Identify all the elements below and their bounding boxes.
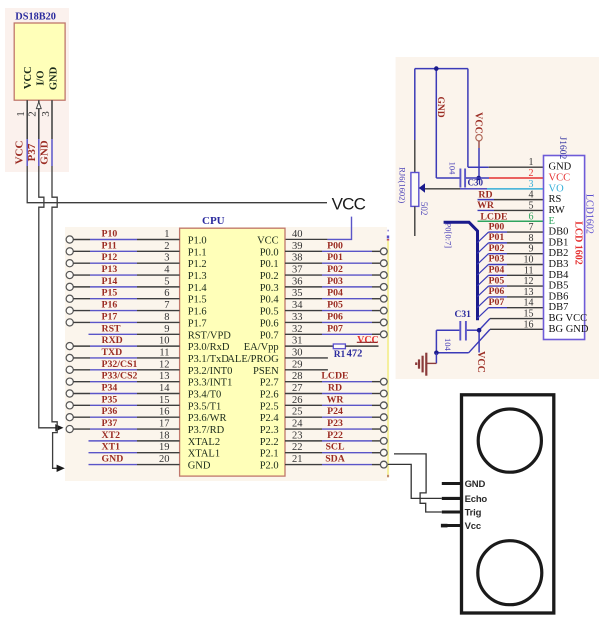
svg-text:21: 21 — [292, 454, 303, 465]
svg-text:XT1: XT1 — [102, 442, 121, 453]
svg-text:RS: RS — [549, 194, 562, 205]
svg-text:DB7: DB7 — [549, 302, 569, 313]
svg-text:3: 3 — [164, 253, 169, 264]
svg-text:P2.7: P2.7 — [260, 378, 279, 389]
svg-text:P13: P13 — [102, 264, 118, 275]
svg-text:18: 18 — [159, 430, 170, 441]
svg-text:GND: GND — [102, 454, 124, 465]
svg-text:Echo: Echo — [465, 494, 488, 505]
svg-text:LCD1602: LCD1602 — [584, 194, 595, 234]
svg-text:4: 4 — [529, 190, 534, 201]
svg-text:P3.0/RxD: P3.0/RxD — [188, 342, 230, 353]
svg-text:P1.2: P1.2 — [188, 259, 207, 270]
svg-text:VCC: VCC — [257, 236, 279, 247]
svg-text:RD: RD — [478, 189, 492, 200]
svg-text:VO: VO — [549, 183, 565, 194]
svg-text:P06: P06 — [327, 311, 343, 322]
svg-text:1: 1 — [529, 157, 534, 168]
svg-text:WR: WR — [327, 394, 345, 405]
svg-text:GND: GND — [435, 96, 445, 117]
svg-text:VCC: VCC — [357, 335, 379, 346]
svg-text:P01: P01 — [327, 252, 343, 263]
svg-text:GND: GND — [465, 479, 486, 490]
svg-text:Trig: Trig — [465, 507, 482, 518]
svg-text:9: 9 — [164, 324, 169, 335]
svg-text:P03: P03 — [327, 276, 343, 287]
svg-text:P0.1: P0.1 — [260, 259, 279, 270]
svg-text:RST/VPD: RST/VPD — [188, 330, 232, 341]
svg-text:P24: P24 — [327, 406, 343, 417]
svg-text:J1602: J1602 — [557, 137, 567, 160]
svg-text:36: 36 — [292, 276, 303, 287]
svg-text:P2.0: P2.0 — [260, 461, 279, 472]
svg-text:RJ6(1602): RJ6(1602) — [398, 167, 408, 203]
svg-text:RXD: RXD — [102, 335, 123, 346]
svg-text:35: 35 — [292, 288, 303, 299]
svg-text:BG VCC: BG VCC — [549, 313, 588, 324]
svg-text:P0.5: P0.5 — [260, 307, 279, 318]
svg-text:6: 6 — [164, 288, 169, 299]
svg-text:4: 4 — [164, 265, 170, 276]
svg-text:104: 104 — [443, 338, 453, 352]
svg-text:R1: R1 — [334, 350, 346, 360]
svg-text:1: 1 — [164, 229, 169, 240]
svg-text:P1.7: P1.7 — [188, 318, 207, 329]
svg-text:P35: P35 — [102, 394, 118, 405]
svg-text:P22: P22 — [327, 430, 343, 441]
svg-text:P2.1: P2.1 — [260, 449, 279, 460]
svg-text:17: 17 — [159, 419, 170, 430]
svg-text:P04: P04 — [489, 265, 505, 276]
svg-text:SDA: SDA — [325, 454, 345, 465]
svg-text:P2.5: P2.5 — [260, 401, 279, 412]
svg-text:32: 32 — [292, 324, 303, 335]
svg-text:3: 3 — [40, 111, 52, 117]
svg-text:TXD: TXD — [102, 347, 123, 358]
svg-text:P0.3: P0.3 — [260, 283, 279, 294]
svg-text:LCD 1602: LCD 1602 — [572, 221, 583, 265]
svg-text:P04: P04 — [327, 288, 343, 299]
svg-text:P3.3/INT1: P3.3/INT1 — [188, 378, 233, 389]
svg-text:P2.3: P2.3 — [260, 425, 279, 436]
svg-text:BG GND: BG GND — [549, 324, 589, 335]
svg-text:I/O: I/O — [36, 70, 47, 85]
svg-text:16: 16 — [159, 407, 170, 418]
svg-text:12: 12 — [159, 359, 170, 370]
svg-text:P02: P02 — [489, 243, 505, 254]
svg-text:Vcc: Vcc — [465, 521, 481, 532]
svg-text:29: 29 — [292, 359, 303, 370]
svg-text:13: 13 — [524, 287, 534, 298]
svg-text:P37: P37 — [102, 418, 118, 429]
svg-text:P00: P00 — [489, 221, 505, 232]
svg-text:13: 13 — [159, 371, 170, 382]
svg-text:P05: P05 — [489, 275, 505, 286]
svg-text:P17: P17 — [102, 311, 118, 322]
svg-text:P1.1: P1.1 — [188, 247, 207, 258]
svg-text:DB1: DB1 — [549, 237, 569, 248]
svg-text:PSEN: PSEN — [253, 366, 279, 377]
svg-text:P02: P02 — [327, 264, 343, 275]
svg-text:P37: P37 — [26, 143, 38, 161]
svg-text:EA/Vpp: EA/Vpp — [244, 342, 279, 353]
svg-text:P1.0: P1.0 — [188, 236, 207, 247]
svg-text:40: 40 — [292, 229, 303, 240]
svg-text:WR: WR — [477, 200, 495, 211]
svg-text:104: 104 — [448, 162, 458, 176]
svg-text:9: 9 — [529, 244, 534, 255]
svg-text:12: 12 — [524, 276, 534, 287]
svg-text:VCC: VCC — [475, 351, 486, 373]
svg-text:8: 8 — [529, 233, 534, 244]
svg-text:34: 34 — [292, 300, 303, 311]
svg-text:GND: GND — [188, 461, 211, 472]
svg-text:P2.4: P2.4 — [260, 413, 280, 424]
svg-text:LCDE: LCDE — [321, 371, 349, 382]
svg-text:7: 7 — [164, 300, 169, 311]
svg-text:P3.6/WR: P3.6/WR — [188, 413, 227, 424]
svg-text:P14: P14 — [102, 276, 118, 287]
svg-text:P07: P07 — [327, 323, 343, 334]
svg-text:22: 22 — [292, 442, 303, 453]
svg-text:7: 7 — [529, 222, 534, 233]
svg-text:39: 39 — [292, 241, 303, 252]
svg-text:P3.5/T1: P3.5/T1 — [188, 401, 222, 412]
svg-text:GND: GND — [48, 66, 59, 90]
svg-text:11: 11 — [524, 265, 534, 276]
svg-text:DB0: DB0 — [549, 227, 569, 238]
svg-text:2: 2 — [164, 241, 169, 252]
svg-text:VCC: VCC — [332, 194, 366, 213]
svg-text:P2.2: P2.2 — [260, 437, 279, 448]
svg-text:2: 2 — [529, 168, 534, 179]
svg-text:P11: P11 — [102, 240, 117, 251]
svg-text:P10: P10 — [102, 229, 118, 240]
svg-text:8: 8 — [164, 312, 169, 323]
svg-text:P1.4: P1.4 — [188, 283, 208, 294]
svg-text:P0.4: P0.4 — [260, 295, 280, 306]
svg-text:19: 19 — [159, 442, 170, 453]
svg-text:P01: P01 — [489, 232, 505, 243]
svg-text:P1.6: P1.6 — [188, 307, 207, 318]
svg-text:14: 14 — [524, 298, 534, 309]
svg-text:1: 1 — [15, 111, 27, 117]
svg-text:30: 30 — [292, 347, 303, 358]
svg-text:23: 23 — [292, 430, 303, 441]
svg-text:RD: RD — [328, 382, 342, 393]
svg-text:2: 2 — [27, 111, 39, 117]
svg-text:ALE/PROG: ALE/PROG — [227, 354, 279, 365]
svg-text:P3.4/T0: P3.4/T0 — [188, 389, 222, 400]
svg-text:P0.0: P0.0 — [260, 247, 279, 258]
svg-text:P2.6: P2.6 — [260, 389, 279, 400]
svg-text:38: 38 — [292, 253, 303, 264]
svg-text:DB3: DB3 — [549, 259, 569, 270]
svg-text:DB6: DB6 — [549, 291, 569, 302]
svg-text:DB2: DB2 — [549, 248, 569, 259]
svg-text:20: 20 — [159, 454, 170, 465]
svg-text:11: 11 — [159, 347, 169, 358]
svg-text:RW: RW — [549, 205, 565, 216]
svg-text:10: 10 — [159, 336, 170, 347]
svg-text:24: 24 — [292, 419, 303, 430]
svg-text:31: 31 — [292, 336, 303, 347]
svg-text:P06: P06 — [489, 286, 505, 297]
svg-text:P3.1/TxD: P3.1/TxD — [188, 354, 230, 365]
svg-text:P0.6: P0.6 — [260, 318, 279, 329]
svg-text:P1.3: P1.3 — [188, 271, 207, 282]
svg-text:3: 3 — [529, 179, 534, 190]
svg-text:GND: GND — [549, 162, 572, 173]
svg-text:25: 25 — [292, 407, 303, 418]
svg-text:VCC: VCC — [549, 173, 571, 184]
svg-text:P34: P34 — [102, 382, 118, 393]
svg-text:16: 16 — [524, 319, 534, 330]
svg-text:P0.7: P0.7 — [260, 330, 279, 341]
svg-text:5: 5 — [529, 200, 534, 211]
svg-text:P32/CS1: P32/CS1 — [102, 359, 138, 370]
svg-text:P12: P12 — [102, 252, 118, 263]
svg-text:27: 27 — [292, 383, 303, 394]
svg-text:P16: P16 — [102, 300, 118, 311]
svg-text:6: 6 — [529, 211, 534, 222]
svg-text:GND: GND — [39, 140, 51, 165]
svg-text:P36: P36 — [102, 406, 118, 417]
svg-text:P05: P05 — [327, 300, 343, 311]
svg-text:15: 15 — [159, 395, 170, 406]
svg-text:502: 502 — [419, 202, 429, 216]
svg-text:15: 15 — [524, 309, 534, 320]
svg-text:DS18B20: DS18B20 — [15, 12, 56, 23]
svg-text:P3.2/INT0: P3.2/INT0 — [188, 366, 233, 377]
svg-text:14: 14 — [159, 383, 170, 394]
svg-text:P0[0:7]: P0[0:7] — [443, 223, 453, 249]
svg-text:5: 5 — [164, 276, 169, 287]
svg-text:33: 33 — [292, 312, 303, 323]
svg-text:XTAL1: XTAL1 — [188, 449, 220, 460]
svg-text:P07: P07 — [489, 297, 505, 308]
svg-text:VCC: VCC — [23, 66, 34, 89]
svg-text:P3.7/RD: P3.7/RD — [188, 425, 225, 436]
svg-text:DB4: DB4 — [549, 270, 570, 281]
svg-text:VCC: VCC — [473, 112, 484, 134]
svg-text:P33/CS2: P33/CS2 — [102, 371, 138, 382]
svg-text:C30: C30 — [468, 178, 484, 188]
svg-text:E: E — [549, 216, 555, 227]
svg-text:P0.2: P0.2 — [260, 271, 279, 282]
svg-text:10: 10 — [524, 254, 534, 265]
svg-text:28: 28 — [292, 371, 303, 382]
svg-text:RST: RST — [102, 323, 122, 334]
svg-text:SCL: SCL — [325, 442, 345, 453]
svg-text:VCC: VCC — [13, 141, 25, 165]
svg-text:XT2: XT2 — [102, 430, 121, 441]
svg-text:P00: P00 — [327, 240, 343, 251]
svg-text:P03: P03 — [489, 254, 505, 265]
svg-text:37: 37 — [292, 265, 303, 276]
svg-text:XTAL2: XTAL2 — [188, 437, 220, 448]
svg-text:C31: C31 — [455, 310, 472, 320]
svg-text:26: 26 — [292, 395, 303, 406]
svg-text:DB5: DB5 — [549, 281, 569, 292]
svg-text:472: 472 — [347, 349, 363, 360]
svg-text:CPU: CPU — [202, 215, 225, 227]
svg-text:P15: P15 — [102, 288, 118, 299]
svg-text:P1.5: P1.5 — [188, 295, 207, 306]
svg-text:P23: P23 — [327, 418, 343, 429]
